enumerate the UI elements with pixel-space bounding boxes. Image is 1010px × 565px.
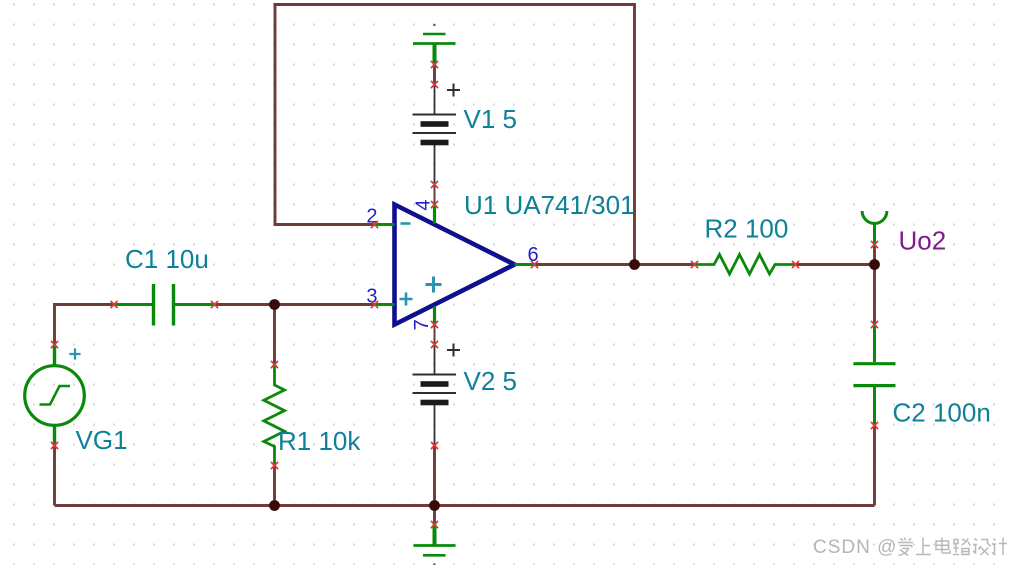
svg-text:C1 10u: C1 10u: [125, 244, 209, 274]
op-amp U1 triangle: [395, 205, 515, 325]
VG1 plus sign: [69, 348, 80, 359]
output terminal Uo2: [862, 211, 887, 245]
svg-text:U1 UA741/301: U1 UA741/301: [464, 190, 635, 220]
svg-text:R1 10k: R1 10k: [278, 426, 361, 456]
pin4 wire between marks: [434, 185, 436, 205]
pin6 stub: [515, 263, 535, 266]
watermark hanzi shang: [916, 538, 931, 555]
V1 lead bottom black: [434, 144, 436, 185]
wire C1 right to node: [215, 303, 375, 306]
V1 plus sign: [447, 84, 460, 97]
battery V1: [413, 115, 457, 146]
watermark hanzi lu: [953, 539, 971, 555]
pin2 stub: [375, 223, 395, 226]
junction node R1/ground rail: [269, 500, 280, 511]
wire bottom rail: [55, 504, 875, 507]
wire R1 top stub: [273, 305, 276, 365]
svg-text:V2 5: V2 5: [464, 366, 518, 396]
wire R2 to output node: [796, 263, 875, 266]
pin7 wire between marks: [434, 325, 436, 345]
V1 lead top black: [434, 85, 436, 115]
wire output row: [535, 263, 695, 266]
svg-text:VG1: VG1: [76, 425, 128, 455]
wire feedback loop: pin2 to left vertical: [275, 5, 635, 265]
capacitor C2: [854, 325, 896, 426]
pin3 stub: [375, 303, 395, 306]
junction node output/feedback: [629, 259, 640, 270]
svg-text:C2 100n: C2 100n: [893, 398, 991, 428]
opamp plus input: [400, 293, 413, 306]
wire R1 bottom to ground rail: [273, 466, 276, 506]
source VG1: [25, 345, 85, 446]
battery V2: [413, 375, 457, 406]
pin X marks: [51, 61, 877, 527]
svg-text:7: 7: [411, 319, 433, 330]
resistor R1: [264, 365, 285, 466]
watermark hanzi she: [973, 539, 991, 556]
wire VG1 bottom: [53, 446, 56, 506]
junction node R2/C2/terminal: [869, 259, 880, 270]
capacitor C1: [114, 284, 215, 326]
wire V2 bottom to rail: [433, 446, 436, 506]
wire C2 bottom to rail: [873, 426, 876, 506]
wire bottom ground stub: [433, 506, 436, 525]
wire terminal stub: [873, 245, 876, 265]
opamp minus: [401, 222, 411, 225]
watermark hanzi dian: [936, 538, 950, 554]
V2 lead bottom black: [434, 404, 436, 446]
opamp plus big: [426, 277, 442, 293]
svg-text:R2 100: R2 100: [705, 214, 789, 244]
svg-text:V1 5: V1 5: [464, 104, 518, 134]
bottom ground: [414, 525, 456, 565]
V2 plus sign: [447, 344, 460, 357]
pin4 green lead: [433, 205, 436, 224]
top ground: [413, 25, 456, 65]
junction node V2/ground rail: [429, 500, 440, 511]
svg-text:Uo2: Uo2: [899, 226, 947, 256]
pin7 green lead: [433, 307, 436, 325]
resistor R2: [695, 255, 796, 275]
wire C1 row left: [55, 305, 115, 345]
watermark hanzi ai: [898, 538, 1007, 556]
junction node C1/R1/pin3: [269, 299, 280, 310]
wire top ground to V1: [433, 65, 436, 85]
wire C2 top to node: [873, 265, 876, 325]
V2 lead top black: [434, 345, 436, 375]
watermark hanzi ji: [992, 538, 1007, 556]
svg-text:CSDN @: CSDN @: [813, 537, 897, 558]
